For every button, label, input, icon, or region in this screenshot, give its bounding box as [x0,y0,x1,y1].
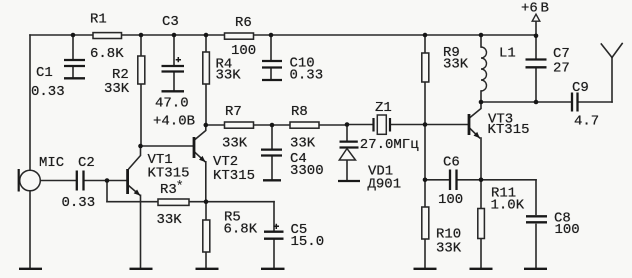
svg-text:6.8K: 6.8K [90,46,124,62]
svg-text:27.0МГц: 27.0МГц [360,137,419,153]
svg-text:0.33: 0.33 [31,84,65,100]
svg-text:L1: L1 [499,46,516,62]
svg-text:Z1: Z1 [375,100,392,116]
svg-text:KT315: KT315 [148,166,190,182]
svg-text:33K: 33K [216,68,242,84]
svg-text:33K: 33K [290,136,316,152]
svg-text:+4.0В: +4.0В [153,114,195,130]
svg-text:+6: +6 [521,1,538,17]
svg-text:100: 100 [231,43,256,59]
svg-text:R3: R3 [160,182,177,198]
svg-text:33K: 33K [222,136,248,152]
svg-text:Д901: Д901 [368,177,402,193]
svg-text:1.0K: 1.0K [491,198,525,214]
svg-text:0.33: 0.33 [290,68,324,84]
svg-text:В: В [541,1,549,17]
svg-text:33K: 33K [104,81,130,97]
svg-text:0.33: 0.33 [62,195,96,211]
svg-text:C6: C6 [443,155,460,171]
svg-text:C9: C9 [572,80,589,96]
svg-text:100: 100 [438,192,463,208]
svg-text:15.0: 15.0 [291,234,325,250]
svg-text:47.0: 47.0 [155,96,189,112]
svg-text:27: 27 [553,61,570,77]
svg-text:R8: R8 [291,104,308,120]
svg-text:C2: C2 [78,155,95,171]
svg-text:3300: 3300 [290,163,324,179]
svg-text:33K: 33K [443,57,469,73]
svg-text:MIC: MIC [39,155,64,171]
svg-text:4.7: 4.7 [574,114,599,130]
svg-text:C3: C3 [162,14,179,30]
svg-text:R7: R7 [225,104,242,120]
svg-text:33K: 33K [436,241,462,257]
svg-text:100: 100 [555,222,580,238]
svg-text:R1: R1 [90,12,107,28]
svg-text:C1: C1 [36,65,53,81]
svg-text:R6: R6 [235,15,252,31]
svg-text:KT315: KT315 [213,168,255,184]
svg-text:6.8K: 6.8K [224,222,258,238]
svg-text:33K: 33K [157,212,183,228]
svg-text:KT315: KT315 [488,122,530,138]
